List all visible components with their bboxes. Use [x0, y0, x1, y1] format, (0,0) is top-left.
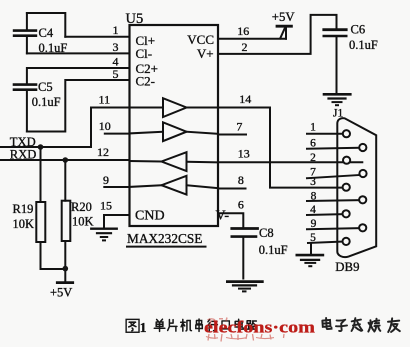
wire pin9 stub	[104, 186, 129, 188]
resistor R20	[62, 201, 71, 241]
svg-text:10: 10	[99, 119, 111, 133]
watermark char 友	[388, 318, 400, 332]
buffer gate T1	[163, 98, 187, 117]
svg-text:1: 1	[140, 320, 147, 335]
wire pin3	[27, 52, 130, 54]
wire pin6 to C8	[218, 213, 243, 228]
caption char 行	[208, 319, 218, 330]
wire pin2 to C6 top rail	[218, 15, 337, 54]
wire C5 bottom to pin5	[27, 80, 130, 132]
wire R20 top lead	[64, 160, 66, 201]
svg-text:C4: C4	[39, 26, 54, 40]
svg-text:3: 3	[113, 40, 119, 54]
watermark calligraphy 电子发烧友	[322, 318, 400, 332]
svg-text:0.1uF: 0.1uF	[259, 243, 288, 257]
svg-text:C2-: C2-	[136, 74, 156, 89]
svg-text:C8: C8	[259, 226, 274, 240]
pin 6 hole	[359, 144, 366, 151]
power +5V top bar	[277, 25, 291, 28]
svg-text:10K: 10K	[72, 215, 94, 229]
svg-text:C6: C6	[351, 22, 366, 36]
wire inside U5 row1	[130, 107, 219, 109]
svg-text:C5: C5	[38, 80, 53, 94]
caption char 图	[126, 319, 139, 332]
svg-text:2: 2	[310, 152, 316, 164]
svg-text:J1: J1	[333, 108, 343, 120]
wire inside U5 row3	[130, 161, 219, 162]
wire DB9 pin8 stub	[307, 199, 359, 202]
ground at pin15	[91, 229, 116, 241]
pin 4 hole	[343, 210, 350, 217]
wire top rail C4 to pin1 drop	[27, 13, 65, 37]
watermark char 电	[322, 318, 331, 329]
wire R19 top lead	[40, 147, 42, 202]
svg-text:9: 9	[311, 218, 317, 230]
wire pin14 down to DB9 pin3	[218, 108, 344, 188]
svg-text:8: 8	[311, 191, 317, 203]
buffer gate R2	[162, 176, 187, 195]
svg-text:elecfons·com: elecfons·com	[204, 317, 315, 336]
watermark red splash	[206, 318, 284, 342]
buffer gate T2	[163, 122, 187, 141]
pin 3 hole	[343, 184, 350, 191]
DB9 pin numbers	[310, 122, 317, 245]
ground below C6	[324, 94, 350, 105]
pin 5 hole	[343, 238, 350, 245]
wire DB9 pin1 stub	[307, 133, 343, 135]
svg-text:R19: R19	[13, 202, 34, 216]
svg-text:DB9: DB9	[335, 260, 359, 274]
IC U5 MAX232CSE body	[130, 25, 219, 226]
svg-text:3: 3	[310, 176, 316, 188]
capacitor C5	[14, 85, 36, 132]
capacitor C8	[232, 229, 258, 279]
caption char 口	[222, 321, 229, 329]
capacitor C6	[324, 30, 346, 92]
caption char 电	[235, 319, 243, 329]
svg-text:U5: U5	[126, 11, 144, 27]
svg-text:5: 5	[310, 232, 316, 244]
svg-text:1: 1	[310, 122, 316, 134]
buffer gate R1	[162, 152, 187, 171]
svg-text:7: 7	[236, 120, 242, 134]
svg-text:V+: V+	[197, 46, 214, 61]
pin 1 hole	[343, 130, 350, 137]
wire DB9 pin6 stub	[307, 147, 359, 150]
wire inside U5 row4	[130, 185, 219, 188]
svg-text:6: 6	[238, 198, 244, 212]
ground at DB9 pin5	[297, 255, 323, 266]
caption char 路	[247, 321, 257, 329]
caption char 片	[168, 319, 177, 331]
node TXD junction	[38, 144, 44, 150]
svg-text:15: 15	[100, 199, 112, 213]
svg-text:0.1uF: 0.1uF	[349, 38, 378, 52]
wire line under MAX232CSE	[127, 246, 206, 248]
wire DB9 pin9 stub	[307, 228, 359, 229]
node RXD junction	[63, 157, 69, 163]
capacitor C4	[14, 13, 36, 53]
wire pin4	[27, 68, 130, 84]
node R19 R20 junction	[63, 266, 69, 272]
svg-text:+5V: +5V	[50, 285, 72, 299]
svg-text:8: 8	[238, 173, 244, 187]
pin 7 hole	[359, 170, 366, 177]
svg-text:MAX232CSE: MAX232CSE	[127, 231, 202, 246]
caption char 串	[196, 319, 202, 331]
svg-text:+5V: +5V	[272, 10, 296, 24]
wire pin8 stub	[218, 188, 246, 190]
ground below C8	[227, 282, 262, 292]
svg-text:0.1uF: 0.1uF	[39, 41, 68, 55]
svg-text:RXD: RXD	[10, 148, 37, 162]
pin 2 hole	[343, 157, 350, 164]
svg-text:1: 1	[113, 23, 119, 37]
wire DB9 pin7 stub	[307, 175, 360, 178]
wire pin10 stub	[105, 133, 130, 135]
svg-text:6: 6	[310, 137, 316, 149]
svg-text:CND: CND	[135, 209, 165, 224]
svg-text:4: 4	[310, 204, 316, 216]
wire pin13 to DB9 pin2	[218, 161, 362, 163]
watermark elecfons.com	[204, 317, 315, 336]
wire R20 bottom to +5V	[64, 241, 66, 281]
pin 9 hole	[359, 224, 366, 231]
svg-text:V-: V-	[216, 209, 230, 224]
wire DB9 pin5 to ground	[310, 243, 312, 254]
watermark char 烧	[368, 319, 380, 332]
svg-text:13: 13	[238, 146, 250, 160]
svg-text:14: 14	[239, 92, 251, 106]
svg-text:Cl-: Cl-	[136, 46, 153, 61]
watermark char 子	[336, 320, 347, 332]
wire pin7 stub	[218, 134, 246, 136]
caption char 单	[154, 319, 165, 331]
wire TXD to pin11	[0, 108, 130, 148]
connector DB9 outline	[337, 118, 376, 257]
pin numbers	[97, 23, 251, 212]
svg-text:5: 5	[113, 67, 119, 81]
svg-text:11: 11	[99, 92, 111, 106]
svg-text:0.1uF: 0.1uF	[32, 95, 61, 109]
wire pin16	[218, 38, 286, 40]
wire pin1	[65, 36, 129, 38]
power +5V bottom bar	[57, 281, 72, 284]
wire inside U5 row2	[130, 132, 219, 134]
caption char 机	[181, 319, 192, 331]
wire DB9 pin5 stub	[308, 242, 343, 243]
resistor R19	[36, 202, 45, 242]
pin 8 hole	[359, 196, 366, 203]
wire +5V hook	[280, 26, 286, 39]
wire DB9 pin4 stub	[307, 213, 343, 216]
watermark char 发	[351, 318, 362, 331]
svg-text:10K: 10K	[13, 217, 35, 231]
caption: 图1 单片机串行口电路	[126, 319, 257, 335]
wire RXD to pin12	[0, 159, 130, 161]
svg-text:VCC: VCC	[187, 32, 214, 47]
svg-text:2: 2	[242, 40, 248, 54]
svg-text:R20: R20	[71, 200, 92, 214]
svg-text:9: 9	[103, 173, 109, 187]
wire pin15 to ground	[104, 215, 130, 227]
svg-text:16: 16	[237, 24, 249, 38]
wire R19 bottom to R20	[41, 242, 66, 269]
svg-text:12: 12	[97, 145, 109, 159]
